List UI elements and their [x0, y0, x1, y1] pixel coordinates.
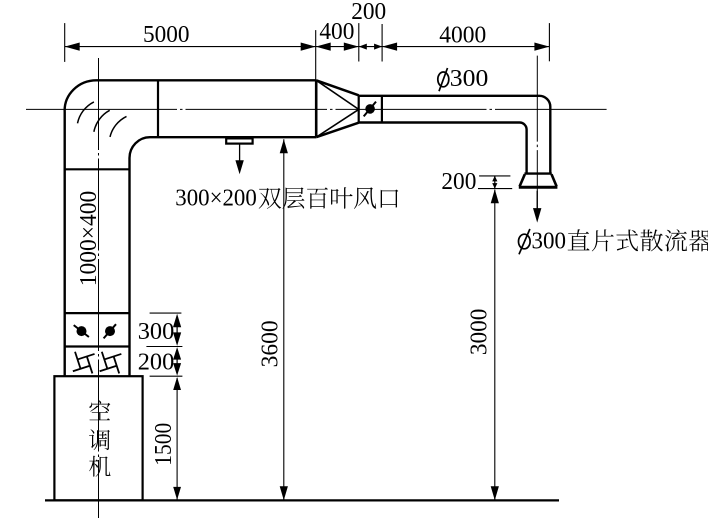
round duct phi300 top edge with right elbow outer corner — [359, 96, 551, 173]
transition cone upper diagonal — [316, 80, 359, 109]
label phi300 above round duct: phi symbol — [438, 68, 449, 91]
damper section right seam — [381, 95, 383, 122]
louver outlet box on duct bottom — [226, 138, 252, 143]
dimension line 3600 — [280, 139, 288, 500]
label AHU: ji — [89, 456, 110, 477]
tick line at AHU top — [150, 375, 183, 377]
dimension label 1500 (rotated) — [151, 423, 177, 466]
dimension line 3000 — [491, 189, 499, 500]
label phi300 above round duct: digits — [450, 66, 489, 92]
diffuser left flare side — [520, 174, 525, 186]
dimension arrows 300 (damper box height) — [173, 314, 181, 346]
extension line at x=358.8 (400/200) — [358, 23, 360, 61]
tick line at damper box bottom — [146, 346, 182, 348]
elbow inner arc and horizontal duct bottom edge — [130, 137, 317, 376]
transition cone top edge — [316, 80, 359, 95]
tick line at damper box top — [150, 312, 182, 314]
joint seam elbow / horizontal duct — [157, 80, 159, 137]
dimension label 300 left — [138, 319, 175, 345]
AHU cabinet box — [54, 376, 142, 500]
label AHU: tiao — [89, 429, 110, 450]
svg-text:300: 300 — [532, 229, 567, 255]
air flow arrow below louver outlet — [235, 144, 243, 174]
svg-text:200: 200 — [351, 0, 386, 25]
dimension arrows 200 (flexible connector height) — [173, 347, 181, 376]
dimension label 200 at diffuser — [441, 169, 476, 195]
extension line at x=382.1 (200/4000) — [381, 24, 383, 62]
damper box: right damper disc — [105, 326, 115, 336]
floor line — [45, 499, 559, 501]
elbow turning vane 3 — [110, 116, 127, 136]
dimension line 400 — [316, 43, 359, 51]
transition cone bottom edge — [316, 123, 359, 138]
dimension line 4000 — [382, 43, 549, 51]
elbow turning vane 1 — [78, 102, 94, 123]
svg-text:200: 200 — [441, 169, 476, 195]
svg-text:3000: 3000 — [466, 309, 492, 356]
svg-text:3600: 3600 — [258, 320, 284, 367]
svg-text:4000: 4000 — [439, 23, 486, 49]
flexible connector symbol right — [94, 346, 127, 379]
label 1000x400 on riser duct (rotated) — [76, 191, 102, 287]
tick line lower (diffuser 200 bottom / 3000 datum) — [478, 188, 512, 190]
vertical centerline of riser duct and AHU — [98, 58, 100, 518]
air flow arrow below diffuser — [533, 191, 541, 223]
inline damper: handle line — [364, 102, 376, 117]
dimension label 5000 — [143, 22, 190, 48]
horizontal centerline of main duct run — [26, 108, 607, 110]
dimension label 3000 (rotated) — [466, 309, 492, 356]
transition cone lower diagonal — [316, 109, 359, 137]
elbow turning vane 2 — [94, 110, 110, 132]
label 300x200 louver outlet: digits part — [175, 186, 256, 212]
dimension label 400 — [319, 19, 354, 45]
label AHU: kong — [89, 400, 110, 420]
damper section left seam — [358, 95, 360, 122]
dimension line 200 (damper section) — [359, 44, 382, 50]
label diffuser: chinese chars — [568, 229, 708, 251]
dimension label 4000 — [439, 23, 486, 49]
svg-text:1500: 1500 — [151, 423, 177, 466]
diffuser bottom rim — [519, 186, 558, 189]
dimension label 3600 (rotated) — [258, 320, 284, 367]
joint seam damper box / flexible connector — [65, 345, 130, 347]
dimension line 1500 (AHU height) — [173, 377, 181, 500]
damper box: left damper handle (down-right) — [74, 325, 89, 337]
joint seam riser duct / damper box — [65, 312, 130, 314]
elbow outer wall: left edge, outer arc, duct top edge — [65, 80, 317, 376]
extension line at x=549.4 (right end 4000) — [548, 23, 550, 61]
label louver outlet: chinese chars — [259, 187, 399, 209]
inline damper: disc — [365, 104, 375, 114]
horizontal duct end seam at transition — [315, 80, 318, 137]
tick line upper (diffuser 200 top) — [479, 175, 510, 177]
diffuser neck joint line — [524, 172, 551, 174]
extension line at x=64.7 (left end 5000) — [64, 23, 66, 62]
dimension label 200 top — [351, 0, 386, 25]
svg-text:300: 300 — [450, 66, 489, 92]
damper box: left damper disc — [77, 326, 87, 336]
svg-text:300×200: 300×200 — [175, 186, 256, 212]
svg-text:200: 200 — [138, 350, 175, 376]
damper box: right damper handle (up-right) — [104, 324, 116, 338]
round duct phi300 bottom edge with right elbow inner corner — [359, 123, 527, 174]
svg-text:1000×400: 1000×400 — [76, 191, 102, 287]
svg-text:400: 400 — [319, 19, 354, 45]
dimension label 200 left — [138, 350, 175, 376]
svg-text:300: 300 — [138, 319, 175, 345]
label diffuser: phi symbol — [519, 229, 531, 254]
flexible connector symbol left — [67, 346, 100, 379]
extension line at x=315.7 (5000/400) — [315, 30, 317, 80]
label diffuser: digits — [532, 229, 567, 255]
dimension arrows 200 at diffuser — [492, 176, 497, 189]
svg-text:5000: 5000 — [143, 22, 190, 48]
joint seam elbow / riser duct — [65, 168, 130, 170]
vertical centerline of right drop duct — [536, 56, 538, 209]
dimension line 5000 — [65, 43, 316, 51]
diffuser right flare side — [552, 174, 557, 186]
